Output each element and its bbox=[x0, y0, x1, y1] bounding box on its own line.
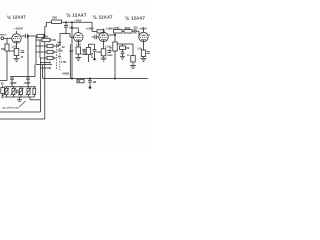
svg-text:2W: 2W bbox=[93, 82, 97, 84]
svg-text:250k: 250k bbox=[57, 51, 63, 53]
svg-text:470k: 470k bbox=[114, 27, 120, 30]
svg-text:820k: 820k bbox=[125, 27, 131, 30]
svg-text:½: ½ bbox=[66, 12, 70, 19]
svg-text:100k: 100k bbox=[111, 46, 113, 52]
svg-text:+150V: +150V bbox=[14, 26, 24, 30]
svg-text:2.2k: 2.2k bbox=[9, 50, 14, 53]
svg-text:1.5k: 1.5k bbox=[137, 48, 142, 51]
svg-text:.05MF: .05MF bbox=[24, 82, 32, 85]
svg-text:25: 25 bbox=[127, 55, 130, 57]
svg-text:½: ½ bbox=[125, 15, 129, 22]
svg-text:+165V: +165V bbox=[139, 26, 147, 30]
svg-text:12AX7: 12AX7 bbox=[99, 15, 114, 20]
svg-text:4.7M: 4.7M bbox=[61, 61, 66, 64]
svg-text:+160V: +160V bbox=[106, 27, 115, 31]
svg-text:1.2V: 1.2V bbox=[11, 45, 17, 49]
svg-text:1M: 1M bbox=[57, 45, 60, 47]
svg-text:25: 25 bbox=[21, 57, 24, 59]
svg-text:.05MF: .05MF bbox=[10, 82, 18, 85]
svg-text:820: 820 bbox=[52, 16, 57, 20]
svg-text:-3V: -3V bbox=[0, 83, 4, 86]
svg-text:10k: 10k bbox=[57, 57, 62, 59]
svg-text:600Ω: 600Ω bbox=[62, 72, 70, 76]
svg-text:470k: 470k bbox=[91, 52, 94, 58]
svg-text:½: ½ bbox=[7, 14, 11, 21]
svg-text:½: ½ bbox=[93, 14, 97, 21]
svg-text:100k: 100k bbox=[57, 42, 63, 44]
svg-text:220k: 220k bbox=[84, 49, 87, 55]
svg-text:12AX7: 12AX7 bbox=[72, 13, 87, 18]
svg-text:1M: 1M bbox=[1, 48, 4, 51]
svg-text:1.5k: 1.5k bbox=[96, 51, 101, 54]
svg-text:+140V: +140V bbox=[86, 27, 94, 31]
svg-text:1.5V: 1.5V bbox=[76, 42, 82, 46]
svg-text:250k: 250k bbox=[43, 37, 49, 39]
svg-text:.005: .005 bbox=[133, 26, 138, 29]
svg-text:.05: .05 bbox=[69, 26, 73, 29]
svg-text:820: 820 bbox=[69, 50, 74, 53]
svg-text:1M: 1M bbox=[126, 48, 129, 50]
svg-text:25MF: 25MF bbox=[107, 55, 113, 57]
svg-text:12AX7: 12AX7 bbox=[13, 15, 27, 20]
svg-text:INPUT: INPUT bbox=[0, 35, 7, 37]
svg-text:.02: .02 bbox=[61, 46, 65, 49]
svg-text:+140V: +140V bbox=[74, 19, 82, 23]
svg-text:12AX7: 12AX7 bbox=[131, 16, 146, 21]
svg-text:ALL POTS 0.5M: ALL POTS 0.5M bbox=[2, 107, 18, 110]
